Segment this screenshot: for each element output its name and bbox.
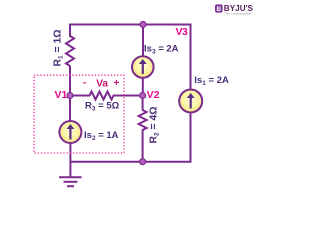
- resistor R1: [53, 29, 75, 66]
- svg-text:V1: V1: [55, 89, 68, 101]
- resistor R2: [139, 97, 161, 161]
- wire: Is3 bottom to node V2: [142, 78, 144, 96]
- svg-text:Is3 = 2A: Is3 = 2A: [144, 44, 179, 56]
- node junction on top wire: [140, 22, 146, 28]
- svg-text:Is2 = 1A: Is2 = 1A: [84, 130, 119, 142]
- wire: R1 bottom to node V1: [69, 66, 71, 95]
- svg-text:R3 = 5Ω: R3 = 5Ω: [85, 101, 120, 113]
- wire: top-left segment of net V3 (R1 top to junction): [70, 25, 143, 38]
- current source Is3: [132, 44, 179, 78]
- svg-text:V3: V3: [176, 26, 189, 38]
- ground: [59, 177, 82, 186]
- BYJU'S logo: [215, 4, 254, 15]
- wire: node V1 to Is2 top: [69, 96, 71, 121]
- wire: top-right segment of net V3 (junction to Is1 top): [143, 25, 191, 91]
- wire: junction to Is3 top: [142, 25, 144, 57]
- svg-text:B: B: [216, 6, 221, 13]
- current source Is1: [179, 75, 229, 113]
- current source Is2: [59, 121, 118, 143]
- svg-text:+: +: [114, 78, 120, 89]
- svg-text:R2 = 4Ω: R2 = 4Ω: [149, 106, 161, 143]
- svg-text:-: -: [83, 78, 86, 89]
- node V1: [55, 89, 74, 101]
- wire: bottom net (Is1 bottom, right corner, to ground tee): [71, 112, 191, 162]
- svg-text:The Learning App: The Learning App: [224, 11, 252, 15]
- label Va polarity marks: [83, 78, 120, 90]
- wire: Is2 bottom through tee to ground: [69, 143, 71, 178]
- resistor R3: [72, 92, 141, 113]
- svg-text:R1 = 1Ω: R1 = 1Ω: [53, 29, 65, 66]
- svg-text:V2: V2: [147, 89, 160, 101]
- dashed supermesh boundary: [34, 75, 124, 153]
- svg-text:Va: Va: [96, 79, 108, 90]
- node junction on bottom wire: [140, 159, 146, 165]
- svg-text:Is1 = 2A: Is1 = 2A: [194, 75, 229, 87]
- node V2: [140, 89, 160, 101]
